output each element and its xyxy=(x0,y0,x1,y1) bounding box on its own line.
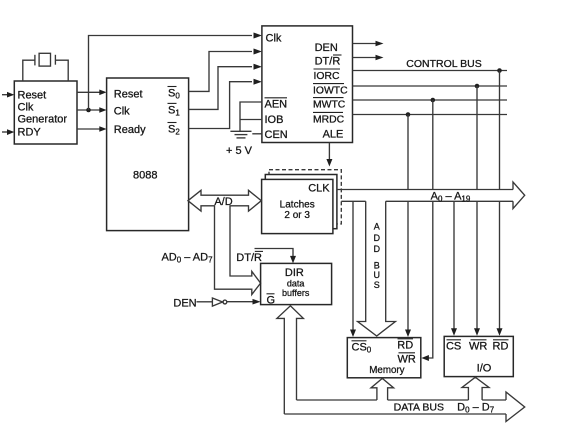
svg-text:CS: CS xyxy=(446,341,461,353)
latches back (dashed) xyxy=(269,170,341,224)
svg-text:buffers: buffers xyxy=(282,288,310,298)
svg-text:DT/R: DT/R xyxy=(315,56,341,68)
inverter (NOT gate) xyxy=(212,298,226,306)
wire: DT/R output arrow xyxy=(353,55,384,61)
svg-text:D: D xyxy=(373,233,380,243)
data buffers DIR block xyxy=(261,263,332,304)
svg-text:DEN: DEN xyxy=(315,42,338,54)
svg-text:D: D xyxy=(373,244,380,254)
wire: S1 to bus controller xyxy=(189,67,252,110)
wire: CEN tie xyxy=(252,133,262,135)
wire: DEN output arrow xyxy=(353,41,384,47)
wire: IOB tie xyxy=(240,119,262,121)
wire: IORC vertical to I/O RD xyxy=(497,71,503,336)
A/D bus arrow (8088 to latches) with branch pipe to data buffers xyxy=(188,190,261,294)
wire: RDY input arrow xyxy=(2,129,14,135)
svg-text:WR: WR xyxy=(398,354,416,366)
svg-text:Clk: Clk xyxy=(114,106,130,118)
I/O block xyxy=(444,336,513,376)
bus controller 8288 block xyxy=(262,26,353,143)
ADD BUS wide arrow to memory xyxy=(358,201,396,336)
latches front (Latches 2 or 3) xyxy=(262,179,333,233)
svg-text:Memory: Memory xyxy=(369,365,404,376)
wire: ALE to latches CLK xyxy=(326,143,332,167)
svg-text:A/D: A/D xyxy=(214,196,232,208)
svg-text:RD: RD xyxy=(493,341,509,353)
svg-text:Reset: Reset xyxy=(114,89,143,101)
wire: Clk riser to bus controller xyxy=(89,36,253,111)
svg-text:DT/R: DT/R xyxy=(236,252,262,264)
svg-text:AEN: AEN xyxy=(265,98,288,110)
svg-text:RDY: RDY xyxy=(18,127,42,139)
svg-text:D0 – D7: D0 – D7 xyxy=(457,402,495,415)
svg-text:MRDC: MRDC xyxy=(313,114,345,125)
svg-text:Reset: Reset xyxy=(18,90,47,102)
wire: clock gen Ready to 8088 xyxy=(77,126,107,132)
svg-text:2 or 3: 2 or 3 xyxy=(284,210,310,221)
svg-text:S: S xyxy=(374,280,380,290)
wire: MRDC control bus line xyxy=(353,114,508,116)
junction dot MWTC xyxy=(431,98,436,103)
svg-text:DEN: DEN xyxy=(173,297,196,309)
svg-text:IOWTC: IOWTC xyxy=(313,86,348,97)
junction dot IOWTC xyxy=(475,84,480,89)
svg-text:DATA BUS: DATA BUS xyxy=(394,402,444,414)
clock generator block xyxy=(14,81,77,144)
wire: Reset input arrow xyxy=(2,92,14,98)
svg-text:8088: 8088 xyxy=(133,169,157,181)
wire: DEN to inverter xyxy=(197,301,213,303)
svg-text:U: U xyxy=(373,270,380,280)
svg-text:Clk: Clk xyxy=(18,102,34,114)
svg-text:Generator: Generator xyxy=(18,114,68,126)
wire: MWTC vertical to memory WR xyxy=(421,100,432,361)
wire: S2 to bus controller xyxy=(189,82,252,129)
svg-text:DIR: DIR xyxy=(285,267,304,279)
wire: inverter to G input xyxy=(227,299,261,305)
junction dot MRDC xyxy=(406,112,411,117)
wire: IOWTC control bus line xyxy=(353,85,508,87)
latches middle xyxy=(265,175,337,229)
wire: AEN/IOB tie-down vertical xyxy=(240,102,262,131)
svg-text:Latches: Latches xyxy=(280,200,315,211)
data bus to memory hollow arrow xyxy=(371,378,394,400)
wire: MRDC vertical to memory RD xyxy=(405,115,411,338)
wire: DT/R to data buffers DIR xyxy=(255,249,297,264)
ADD BUS vertical label xyxy=(373,222,380,290)
svg-text:ALE: ALE xyxy=(323,129,344,141)
wire: S0 to bus controller xyxy=(189,52,252,92)
wire: address branch to I/O CS xyxy=(451,201,457,335)
svg-text:A: A xyxy=(374,222,380,232)
crystal Y1 xyxy=(23,53,68,81)
memory block xyxy=(347,338,421,378)
wire: clock gen Reset to 8088 xyxy=(77,90,107,96)
junction dot IORC xyxy=(497,68,502,73)
svg-text:+ 5 V: + 5 V xyxy=(226,145,253,157)
8088 CPU block xyxy=(107,78,189,231)
svg-text:G: G xyxy=(267,295,276,307)
svg-text:RD: RD xyxy=(397,340,413,352)
svg-text:B: B xyxy=(374,260,380,270)
svg-text:CLK: CLK xyxy=(308,183,330,195)
data bus to I/O hollow arrow xyxy=(462,377,489,400)
svg-text:WR: WR xyxy=(469,341,487,353)
A0-A19 address bus arrow xyxy=(337,182,525,209)
data bus to DIR data buffers hollow arrow xyxy=(277,306,304,414)
svg-text:CEN: CEN xyxy=(265,129,288,141)
svg-text:data: data xyxy=(287,279,305,289)
wire: IORC control bus line xyxy=(353,70,508,72)
ground symbol at +5V xyxy=(230,131,251,138)
svg-text:Clk: Clk xyxy=(266,33,282,45)
wire: clock gen Clk to 8088 xyxy=(77,107,107,113)
svg-text:Ready: Ready xyxy=(114,124,146,136)
svg-text:CONTROL BUS: CONTROL BUS xyxy=(406,58,481,70)
svg-text:MWTC: MWTC xyxy=(313,100,346,111)
wire: MWTC control bus line xyxy=(353,99,508,101)
svg-text:I/O: I/O xyxy=(477,363,492,375)
junction dot on Clk wire xyxy=(86,108,91,113)
wire: address branch to memory CS0 xyxy=(350,201,356,337)
wire: IOWTC vertical to I/O WR xyxy=(474,86,480,336)
svg-text:AD0 – AD7: AD0 – AD7 xyxy=(161,252,213,265)
svg-text:IORC: IORC xyxy=(314,71,340,82)
DATA BUS arrow xyxy=(284,392,524,422)
svg-text:IOB: IOB xyxy=(265,114,284,126)
